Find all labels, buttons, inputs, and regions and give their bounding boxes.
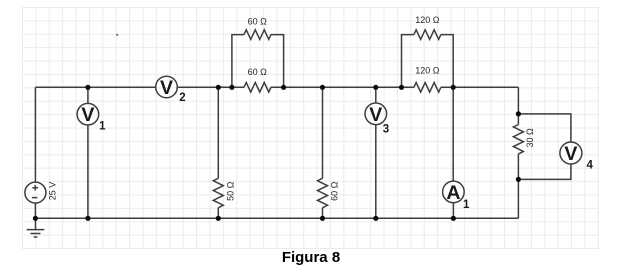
wire 50ohm to bottom xyxy=(217,208,219,219)
wire right vertical upper xyxy=(517,87,519,124)
ammeter A1 branch wire upper xyxy=(452,87,454,181)
wire 60ohm loop right xyxy=(271,35,284,88)
wire 120ohm loop right xyxy=(441,35,453,88)
source plus sign xyxy=(32,185,38,191)
resistor 60ohm series (lower of pair) xyxy=(244,83,271,93)
node 60ohm-pair left junction xyxy=(229,85,234,90)
resistor R 120ohm (upper of pair) xyxy=(414,30,441,40)
svg-text:V: V xyxy=(369,104,382,126)
wire top main middle xyxy=(177,86,244,88)
wire V4 loop bottom xyxy=(518,164,571,179)
voltage source 25V xyxy=(25,182,46,203)
wire 60ohm parallel loop xyxy=(232,35,244,88)
node top-V1 junction xyxy=(85,85,90,90)
node top-V3 junction xyxy=(373,85,378,90)
svg-text:60 Ω: 60 Ω xyxy=(329,181,339,201)
node bottom-V1 junction xyxy=(85,216,90,221)
svg-text:V: V xyxy=(81,104,94,126)
voltmeter V3 branch wire upper xyxy=(375,87,377,103)
node 30ohm-V4 top junction xyxy=(516,111,521,116)
svg-text:60 Ω: 60 Ω xyxy=(248,67,268,77)
voltmeter V4 xyxy=(560,142,582,164)
svg-text:V: V xyxy=(564,143,577,165)
node top-60ohm junction xyxy=(320,85,325,90)
resistor R 50ohm xyxy=(213,178,223,207)
svg-text:25 V: 25 V xyxy=(47,182,57,201)
wire bottom main xyxy=(35,217,518,219)
wire V3 to bottom xyxy=(375,125,377,219)
node top-50ohm junction xyxy=(216,85,221,90)
svg-text:120 Ω: 120 Ω xyxy=(415,66,440,76)
node 120ohm-pair right junction xyxy=(451,85,456,90)
wire left vertical to source xyxy=(34,87,36,182)
resistor R 60ohm vertical xyxy=(318,178,328,207)
node 120ohm-pair left junction xyxy=(399,85,404,90)
source minus sign xyxy=(32,197,38,199)
svg-text:50 Ω: 50 Ω xyxy=(225,181,235,201)
wire V1 to bottom xyxy=(87,125,89,218)
svg-text:120 Ω: 120 Ω xyxy=(415,15,440,25)
svg-text:1: 1 xyxy=(463,199,470,211)
svg-text:4: 4 xyxy=(586,160,593,172)
voltmeter V1 branch wire upper xyxy=(87,87,89,103)
wire 120ohm parallel loop xyxy=(402,35,414,88)
wire A1 to bottom xyxy=(452,203,454,219)
svg-text:3: 3 xyxy=(383,123,389,135)
resistor R 30ohm xyxy=(513,125,523,154)
svg-text:A: A xyxy=(446,182,460,204)
wire V4 loop top xyxy=(518,114,571,142)
voltmeter V1 xyxy=(77,103,99,125)
wire top main between resistors xyxy=(271,86,414,88)
resistor 120ohm series (lower of pair) xyxy=(414,83,441,93)
ammeter A1 xyxy=(443,181,465,203)
node bottom-A1 junction xyxy=(451,216,456,221)
stray mark xyxy=(116,34,118,36)
ground xyxy=(27,218,45,237)
node bottom-60ohm junction xyxy=(320,216,325,221)
voltmeter V3 xyxy=(365,103,387,125)
wire right vertical lower xyxy=(517,154,519,218)
node 60ohm-pair right junction xyxy=(281,85,286,90)
wire top main right xyxy=(441,86,519,88)
caption Figura 8 xyxy=(0,249,622,266)
voltmeter V2 xyxy=(156,76,178,98)
svg-text:30 Ω: 30 Ω xyxy=(525,128,535,148)
svg-text:V: V xyxy=(160,77,173,99)
svg-text:2: 2 xyxy=(179,92,185,104)
wire source to bottom xyxy=(34,203,36,218)
node 30ohm-V4 bottom junction xyxy=(516,177,521,182)
node bottom-50ohm junction xyxy=(216,216,221,221)
node bottom-V3 junction xyxy=(373,216,378,221)
svg-text:60 Ω: 60 Ω xyxy=(248,17,268,27)
resistor R 60ohm (upper of pair) xyxy=(244,30,271,40)
resistor 50ohm branch: wire upper xyxy=(217,87,219,178)
resistor 60ohm branch: wire upper xyxy=(322,87,324,178)
node bottom-source junction xyxy=(33,216,38,221)
svg-text:1: 1 xyxy=(99,121,106,133)
meter letters xyxy=(81,77,593,211)
wire 60ohm to bottom xyxy=(322,208,324,219)
wire top main left xyxy=(35,86,155,88)
